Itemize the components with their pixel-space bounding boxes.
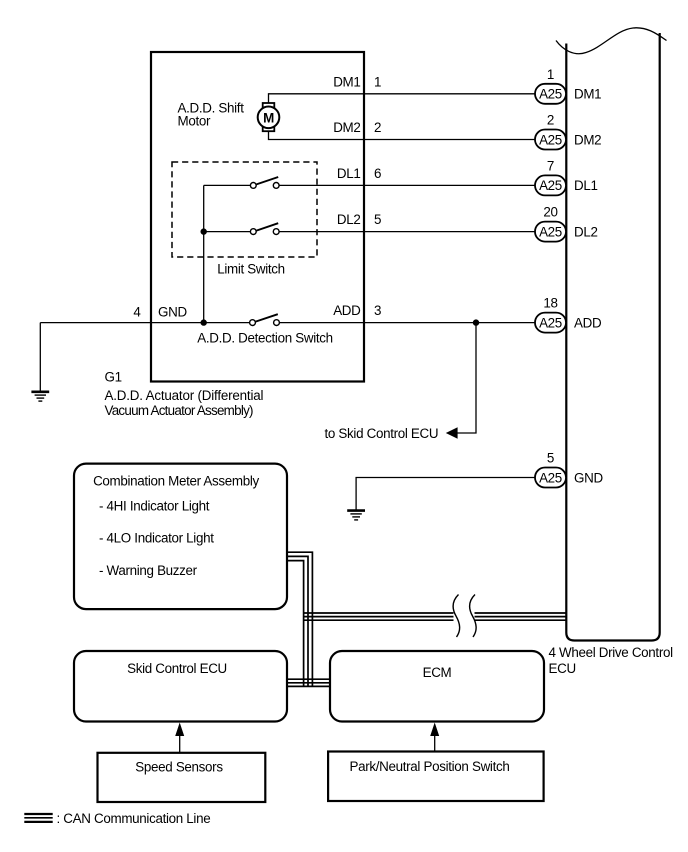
label Speed Sensors (135, 760, 223, 775)
pin label DL2 / 5 (actuator side) (337, 212, 381, 227)
pin label 4 / GND (actuator side) (133, 304, 187, 319)
wire DM2 (269, 131, 536, 140)
ECM box (330, 651, 544, 722)
label Combination Meter Assembly (93, 474, 259, 489)
pin number 20 (543, 205, 557, 220)
svg-text:- 4HI Indicator Light: - 4HI Indicator Light (99, 499, 210, 514)
svg-text:Motor: Motor (178, 114, 211, 129)
wire DL1 (204, 184, 535, 186)
pin number 1 (547, 67, 554, 82)
pin number 7 (547, 158, 554, 173)
svg-text:4: 4 (133, 304, 141, 319)
svg-text:DL2: DL2 (574, 224, 598, 239)
svg-text:DM2: DM2 (333, 120, 360, 135)
pin number 5 (547, 451, 554, 466)
4 Wheel Drive Control ECU box (566, 33, 659, 641)
svg-text:6: 6 (374, 166, 381, 181)
label ADD (ECU side) (574, 315, 602, 330)
connector A25 pin 7 (DL1) (535, 175, 566, 195)
svg-text:A25: A25 (539, 178, 562, 193)
label DM1 (ECU side) (574, 87, 601, 102)
park/neutral position switch box (328, 752, 543, 802)
svg-text:to Skid Control ECU: to Skid Control ECU (325, 426, 439, 441)
svg-text:Speed Sensors: Speed Sensors (135, 760, 223, 775)
svg-text:7: 7 (547, 158, 554, 173)
label A.D.D. Shift Motor (178, 101, 245, 129)
svg-text:DM1: DM1 (574, 87, 601, 102)
wire DL2 (204, 231, 535, 233)
svg-text:20: 20 (543, 205, 557, 220)
CAN bus to 4WD ECU (triple line) (304, 613, 567, 620)
combination meter assembly box (74, 464, 287, 609)
label 4HI indicator light (99, 499, 210, 514)
svg-text:Park/Neutral Position Switch: Park/Neutral Position Switch (350, 759, 510, 774)
limit switch contact DL2 (250, 223, 279, 234)
junction dot DL2 (201, 228, 207, 234)
arrow speed sensors to skid control ECU (175, 723, 184, 753)
svg-text:GND: GND (574, 470, 603, 485)
svg-text:ADD: ADD (333, 303, 361, 318)
A.D.D. actuator box (151, 52, 364, 382)
svg-text:DL2: DL2 (337, 212, 361, 227)
skid control ECU box (74, 651, 287, 722)
svg-text:: CAN Communication Line: : CAN Communication Line (57, 811, 211, 826)
svg-text:DL1: DL1 (574, 178, 598, 193)
wire GND pin 5 (356, 478, 535, 511)
connector A25 pin 5 (GND) (535, 468, 566, 488)
pin number 2 (547, 113, 554, 128)
limit switch dashed box (172, 162, 317, 257)
svg-text:1: 1 (374, 74, 381, 89)
svg-text:A25: A25 (539, 87, 562, 102)
svg-text:3: 3 (374, 303, 381, 318)
wire riser from limit switch to GND node (203, 185, 205, 322)
svg-text:2: 2 (374, 120, 381, 135)
label DL1 (ECU side) (574, 178, 598, 193)
label Skid Control ECU (127, 661, 227, 676)
svg-text:A25: A25 (539, 224, 562, 239)
label A.D.D. Actuator (Differential Vacuum Actuator Assembly) (105, 388, 264, 418)
label Park/Neutral Position Switch (350, 759, 510, 774)
label ECM (423, 665, 452, 680)
svg-text:G1: G1 (105, 370, 122, 385)
svg-text:A25: A25 (539, 470, 562, 485)
label 4LO indicator light (99, 531, 214, 546)
connector A25 pin 2 (DM2) (535, 130, 566, 150)
svg-text:- Warning Buzzer: - Warning Buzzer (99, 563, 198, 578)
wire DM1 (269, 94, 536, 104)
label DM2 (ECU side) (574, 132, 601, 147)
label warning buzzer (99, 563, 198, 578)
pin label DM1 / 1 (actuator side) (333, 74, 381, 89)
svg-text:A25: A25 (539, 315, 562, 330)
svg-text:ECU: ECU (549, 661, 576, 676)
svg-text:A.D.D. Actuator (Differential: A.D.D. Actuator (Differential (105, 388, 264, 403)
svg-text:1: 1 (547, 67, 554, 82)
label DL2 (ECU side) (574, 224, 598, 239)
junction dot ADD branch (473, 319, 479, 325)
legend label CAN Communication Line (57, 811, 211, 826)
label Limit Switch (217, 262, 285, 277)
pin number 18 (543, 296, 557, 311)
svg-text:DM1: DM1 (333, 74, 360, 89)
connector A25 pin 20 (DL2) (535, 222, 566, 242)
svg-text:5: 5 (547, 451, 554, 466)
CAN line: combination meter to bus (triple line, down leg) (287, 552, 312, 687)
svg-text:Limit Switch: Limit Switch (217, 262, 285, 277)
label A.D.D. Detection Switch (197, 331, 333, 346)
label to Skid Control ECU (325, 426, 439, 441)
wire GND / ADD row (40, 322, 535, 324)
connector A25 pin 18 (ADD) (535, 313, 566, 333)
svg-text:5: 5 (374, 212, 381, 227)
speed sensors box (98, 753, 266, 802)
svg-text:Vacuum Actuator Assembly): Vacuum Actuator Assembly) (105, 403, 254, 418)
limit switch contact DL1 (250, 177, 279, 188)
svg-text:A25: A25 (539, 132, 562, 147)
label 4 Wheel Drive Control ECU (549, 645, 674, 676)
svg-text:18: 18 (543, 296, 557, 311)
svg-text:2: 2 (547, 113, 554, 128)
A.D.D. detection switch contact (250, 314, 280, 325)
svg-text:- 4LO Indicator Light: - 4LO Indicator Light (99, 531, 214, 546)
svg-text:A.D.D. Detection Switch: A.D.D. Detection Switch (197, 331, 333, 346)
svg-text:DM2: DM2 (574, 132, 601, 147)
ground (4WD ECU GND) (347, 511, 365, 520)
pin label ADD / 3 (actuator side) (333, 303, 381, 318)
svg-text:ECM: ECM (423, 665, 452, 680)
svg-text:M: M (263, 111, 274, 126)
svg-text:ADD: ADD (574, 315, 602, 330)
svg-text:GND: GND (158, 304, 187, 319)
svg-text:Combination Meter Assembly: Combination Meter Assembly (93, 474, 259, 489)
pin label DL1 / 6 (actuator side) (337, 166, 381, 181)
4WD ECU box top break wave (556, 28, 667, 54)
wire to Skid Control ECU with arrowhead (446, 323, 476, 439)
CAN bus break symbol (453, 595, 476, 638)
junction dot GND node (201, 319, 207, 325)
pin label DM2 / 2 (actuator side) (333, 120, 381, 135)
ground G1 (31, 323, 49, 402)
label G1 (105, 370, 122, 385)
arrow park/neutral switch to ECM (430, 723, 439, 752)
svg-text:4 Wheel Drive Control: 4 Wheel Drive Control (549, 645, 674, 660)
legend CAN symbol (triple line) (24, 814, 52, 822)
svg-text:Skid Control ECU: Skid Control ECU (127, 661, 227, 676)
CAN link Skid Control ECU to ECM (triple line) (287, 679, 329, 686)
motor M (A.D.D. shift motor) (258, 103, 280, 131)
connector A25 pin 1 (DM1) (535, 84, 566, 104)
label GND (ECU side) (574, 470, 603, 485)
svg-text:DL1: DL1 (337, 166, 361, 181)
